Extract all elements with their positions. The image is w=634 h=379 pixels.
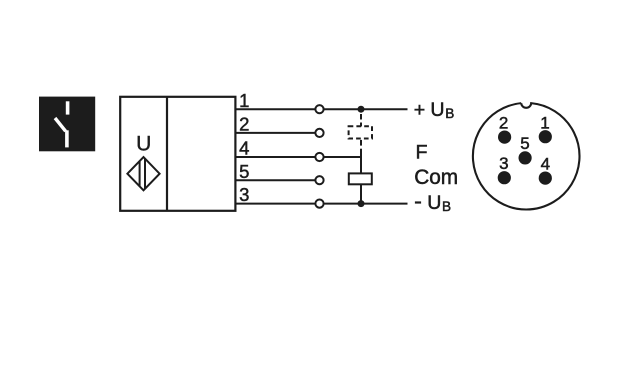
svg-text:1: 1 (239, 90, 249, 111)
connector face (M12 plug) with keyway notch (473, 103, 580, 209)
svg-text:F: F (416, 142, 428, 164)
minus sign of -UB (415, 201, 421, 203)
junction node on wire 3 (358, 200, 365, 207)
wire from load resistor to wire 3 (360, 185, 362, 204)
wire 4 (F) (235, 156, 361, 158)
connector pin 4 (539, 172, 552, 185)
dashed wire from node to optional load (360, 114, 362, 120)
optional load (dashed box) (349, 126, 372, 138)
svg-text:4: 4 (239, 138, 249, 159)
dashed wire from optional load to wire 4 (360, 140, 362, 146)
terminal circle on wire 3 (315, 200, 323, 208)
svg-text:5: 5 (520, 134, 529, 153)
svg-text:5: 5 (239, 161, 249, 182)
junction node on wire 1 (358, 106, 365, 113)
ultrasonic transducer symbol (diamond) (127, 157, 159, 190)
load resistor (solid box) (349, 173, 372, 184)
wire 5 (Com) (235, 179, 316, 181)
svg-text:U: U (136, 133, 151, 156)
sensor body (box) (120, 97, 235, 211)
svg-text:2: 2 (499, 114, 508, 133)
svg-text:3: 3 (239, 184, 249, 205)
connector pin 1 (539, 130, 552, 143)
sensor divider (166, 97, 168, 211)
svg-text:2: 2 (239, 114, 249, 135)
wire from wire-4 junction down to load resistor (360, 157, 362, 173)
terminal circle on wire 1 (315, 105, 323, 113)
switch contact symbol (white) in icon (55, 101, 68, 147)
terminal circle on wire 5 (315, 176, 323, 184)
connector pin 5 (519, 151, 532, 164)
switching-output icon (black square) (39, 97, 95, 152)
connector pin 3 (498, 171, 511, 184)
svg-text:Com: Com (414, 166, 458, 189)
terminal circle on wire 4 (315, 153, 323, 161)
terminal circle on wire 2 (315, 129, 323, 137)
wire 1 (+UB) (235, 108, 407, 110)
svg-text:3: 3 (499, 154, 508, 173)
connector pin 2 (498, 131, 511, 144)
wire 2 (235, 132, 316, 134)
svg-text:4: 4 (541, 154, 550, 173)
wire 3 (-UB) (235, 203, 407, 205)
svg-text:1: 1 (540, 113, 549, 132)
